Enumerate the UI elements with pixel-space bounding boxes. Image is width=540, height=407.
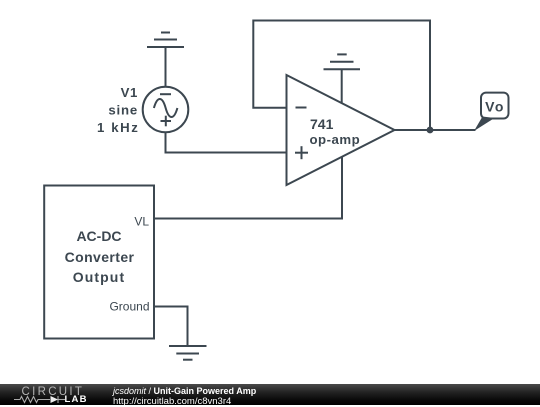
svg-text:Output: Output [73, 269, 125, 285]
svg-text:1 kHz: 1 kHz [97, 120, 139, 135]
svg-text:AC-DC: AC-DC [76, 228, 121, 244]
svg-text:Converter: Converter [65, 249, 135, 265]
svg-text:V1: V1 [121, 85, 138, 100]
svg-text:VL: VL [134, 214, 149, 228]
svg-text:op-amp: op-amp [310, 132, 361, 147]
svg-text:741: 741 [310, 116, 334, 132]
svg-text:sine: sine [108, 103, 138, 118]
svg-text:Ground: Ground [109, 300, 149, 314]
svg-text:Vo: Vo [485, 99, 505, 115]
